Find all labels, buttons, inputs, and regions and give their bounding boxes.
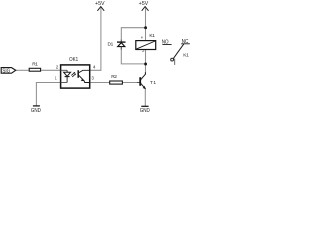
- optocoupler OK1 box: [61, 65, 90, 88]
- junction node at +5V / D1: [144, 26, 147, 29]
- contact common pin: [174, 59, 176, 65]
- junction node at collector / D1: [144, 63, 147, 66]
- transistor T1: [137, 82, 140, 84]
- wire D1 anode to collector node: [121, 47, 145, 64]
- wire T1 emitter to GND: [144, 88, 146, 106]
- wire node to D1 cathode: [121, 28, 145, 42]
- svg-text:+5V: +5V: [95, 1, 105, 7]
- wire OK1 pin1 to GND: [36, 83, 60, 106]
- wire R1 to OK1 pin2: [41, 69, 60, 71]
- ground middle: [141, 105, 148, 107]
- wire relay coil to collector node: [145, 50, 147, 75]
- svg-text:T1: T1: [150, 80, 157, 86]
- OK1 internal LED: [61, 69, 68, 71]
- svg-text:GND: GND: [31, 108, 41, 114]
- connector SIG tag: [1, 68, 16, 74]
- relay coil K1: [136, 41, 156, 50]
- wire +5V right down to relay coil: [145, 7, 147, 40]
- svg-text:R1: R1: [32, 62, 38, 68]
- OK1 light arrows: [71, 72, 74, 75]
- wire R2 to T1 base: [122, 82, 139, 84]
- wire SIG to R1: [16, 69, 29, 71]
- ground left: [33, 105, 40, 107]
- svg-text:SIG: SIG: [2, 68, 10, 74]
- wire OK1 pin3 to R2: [90, 82, 110, 84]
- resistor R2: [110, 81, 123, 84]
- coil pin number 1: [141, 37, 143, 39]
- contact arm: [173, 44, 184, 59]
- svg-text:R2: R2: [111, 74, 117, 80]
- svg-text:K1: K1: [183, 53, 189, 59]
- svg-text:+5V: +5V: [139, 1, 149, 7]
- svg-text:D1: D1: [108, 42, 114, 48]
- resistor R1: [29, 68, 40, 71]
- contact pivot circle: [171, 58, 174, 61]
- svg-text:GND: GND: [140, 108, 150, 114]
- OK1 phototransistor: [77, 70, 79, 78]
- wire OK1 pin4 to +5V: [90, 7, 101, 70]
- svg-text:OK1: OK1: [69, 57, 78, 63]
- svg-text:K1: K1: [149, 33, 155, 39]
